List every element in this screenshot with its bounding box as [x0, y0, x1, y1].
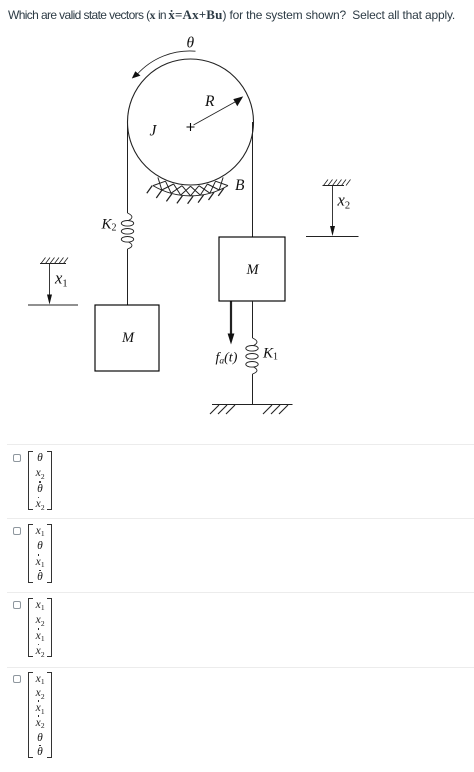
left rope lower segment	[127, 249, 129, 305]
right mass M	[219, 237, 285, 301]
x2 reference ceiling hatch	[323, 185, 345, 187]
svg-text:fa(t): fa(t)	[216, 351, 238, 367]
disk J (circle)	[128, 59, 254, 185]
ground hatch right	[263, 405, 288, 414]
svg-text:K2: K2	[101, 217, 117, 234]
theta rotation arrow	[137, 51, 196, 75]
spring K1 wire top	[252, 301, 254, 338]
svg-text:θ: θ	[187, 35, 195, 52]
svg-text:x2: x2	[337, 191, 351, 212]
ground line	[212, 404, 293, 406]
left mass M	[95, 305, 159, 371]
ground hatch left	[210, 405, 235, 414]
spring K1 wire bottom	[252, 374, 254, 405]
svg-text:J: J	[150, 123, 158, 140]
answer row 4	[0, 667, 474, 772]
damper contact B: cross-hatch band under disk	[153, 186, 228, 196]
x1 reference ceiling hatch	[40, 263, 66, 265]
svg-text:K1: K1	[262, 346, 278, 363]
x2 datum line	[306, 236, 359, 238]
question text	[8, 7, 455, 23]
x1 datum line	[28, 304, 78, 306]
damper hatch ticks	[147, 186, 224, 204]
applied force fa(t) arrow	[230, 302, 232, 336]
spring K2	[121, 213, 133, 249]
answer row 1	[0, 444, 474, 518]
answer row 3	[0, 592, 474, 666]
center cross	[187, 123, 195, 131]
x1 arrow	[49, 264, 51, 297]
svg-text:M: M	[121, 330, 135, 346]
answer row 2	[0, 518, 474, 592]
left rope upper segment	[127, 122, 129, 213]
right rope	[252, 122, 254, 237]
svg-text:B: B	[235, 177, 245, 194]
svg-text:R: R	[204, 93, 215, 110]
radius R arrow	[194, 100, 240, 125]
x2 arrow	[332, 186, 334, 229]
svg-text:x1: x1	[54, 269, 68, 290]
svg-text:M: M	[246, 262, 260, 278]
spring K1	[246, 338, 258, 374]
